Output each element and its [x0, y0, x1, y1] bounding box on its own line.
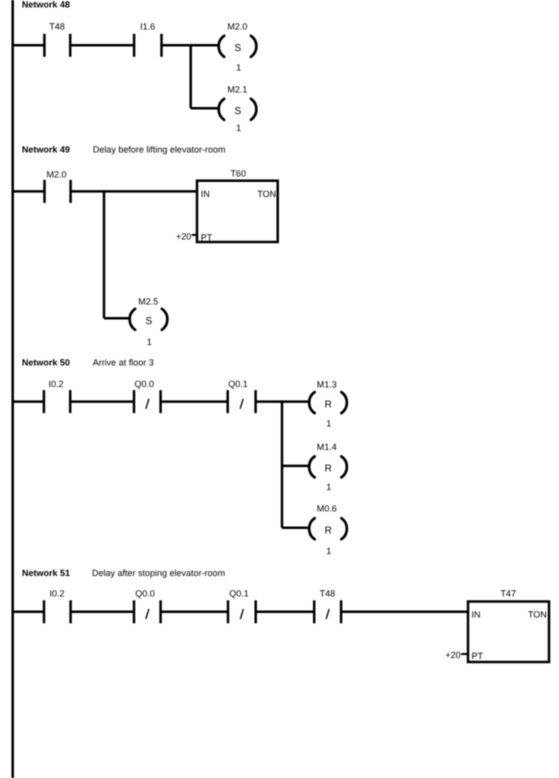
svg-text:R: R — [325, 399, 332, 410]
svg-text:R: R — [325, 464, 332, 475]
svg-text:Q0.0: Q0.0 — [135, 589, 155, 599]
svg-text:1: 1 — [326, 482, 331, 492]
svg-text:M2.0: M2.0 — [227, 22, 247, 32]
svg-text:1: 1 — [147, 337, 152, 347]
svg-text:T48: T48 — [49, 22, 65, 32]
svg-text:M2.1: M2.1 — [227, 85, 247, 95]
svg-text:T48: T48 — [320, 589, 336, 599]
svg-text:1: 1 — [236, 62, 241, 72]
svg-text:PT: PT — [472, 651, 484, 661]
svg-text:TON: TON — [257, 189, 276, 199]
svg-text:Arrive at floor 3: Arrive at floor 3 — [93, 357, 154, 367]
svg-text:Network 50: Network 50 — [22, 357, 70, 367]
svg-text:TON: TON — [528, 609, 547, 619]
svg-text:M2.5: M2.5 — [138, 296, 158, 306]
svg-text:M1.3: M1.3 — [317, 379, 337, 389]
svg-text:S: S — [234, 106, 241, 117]
svg-text:M0.6: M0.6 — [317, 504, 337, 514]
svg-text:I0.2: I0.2 — [48, 379, 63, 389]
svg-text:Delay before lifting elevator-: Delay before lifting elevator-room — [93, 145, 226, 155]
svg-text:PT: PT — [201, 233, 213, 243]
svg-text:S: S — [234, 43, 241, 54]
svg-text:S: S — [145, 316, 152, 327]
svg-text:R: R — [325, 526, 332, 537]
svg-text:IN: IN — [201, 189, 210, 199]
svg-text:1: 1 — [236, 123, 241, 133]
svg-text:I0.2: I0.2 — [49, 589, 64, 599]
svg-text:I1.6: I1.6 — [140, 22, 155, 32]
svg-text:IN: IN — [472, 609, 481, 619]
svg-text:Network 51: Network 51 — [22, 568, 70, 578]
svg-text:Network 48: Network 48 — [22, 0, 70, 9]
svg-text:Q0.0: Q0.0 — [134, 379, 154, 389]
svg-text:1: 1 — [326, 418, 331, 428]
svg-text:Q0.1: Q0.1 — [229, 589, 249, 599]
svg-text:Network 49: Network 49 — [22, 145, 70, 155]
svg-text:M2.0: M2.0 — [46, 169, 66, 179]
svg-text:Delay after stoping elevator-r: Delay after stoping elevator-room — [92, 568, 225, 578]
svg-text:M1.4: M1.4 — [317, 442, 337, 452]
svg-text:+20: +20 — [176, 231, 191, 241]
svg-text:+20: +20 — [445, 650, 460, 660]
svg-text:Q0.1: Q0.1 — [228, 379, 248, 389]
svg-text:T47: T47 — [500, 588, 516, 598]
svg-text:T60: T60 — [230, 168, 246, 178]
svg-text:1: 1 — [326, 546, 331, 556]
